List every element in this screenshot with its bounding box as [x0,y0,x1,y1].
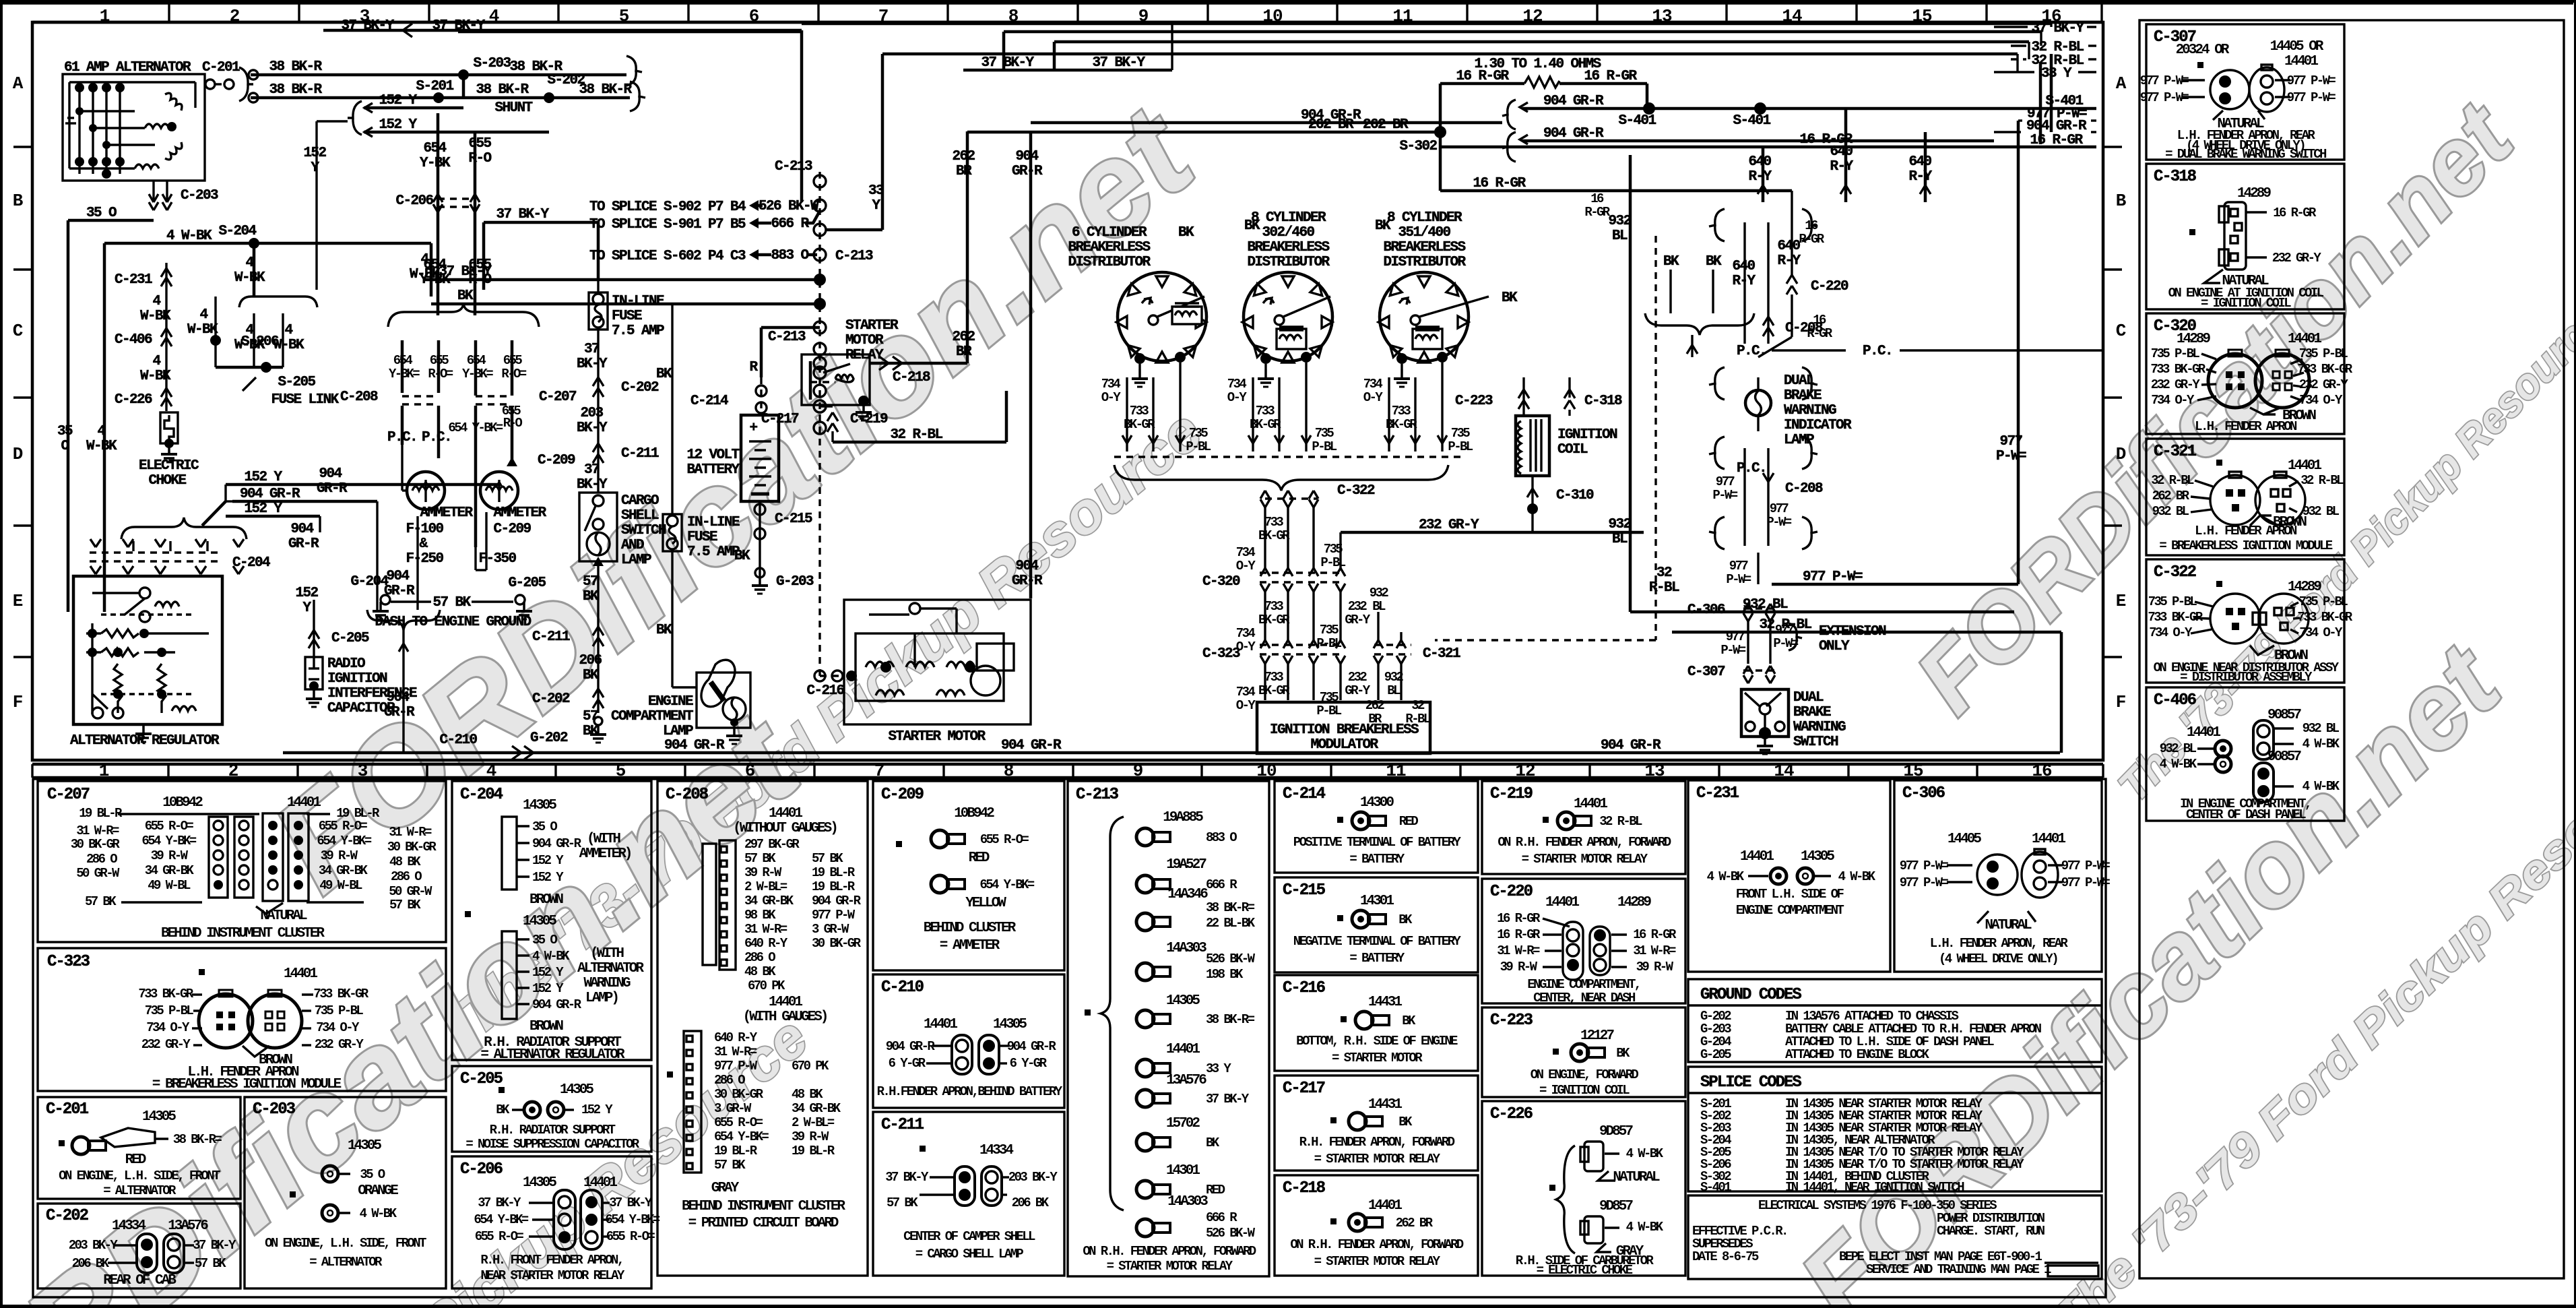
P.C. line [1737,344,2103,359]
svg-text:BK: BK [1663,254,1679,270]
svg-text:14401: 14401 [2288,458,2321,474]
svg-text:13A576: 13A576 [1166,1073,1206,1088]
brace collecting 38 BK-R pair [626,56,645,111]
wire 16 R-GR to C-220 [1440,176,1848,357]
svg-text:RED: RED [125,1152,146,1168]
svg-text:GR-R: GR-R [317,481,348,497]
svg-text:152 Y: 152 Y [532,870,564,885]
svg-text:666 R: 666 R [1206,1210,1237,1225]
svg-text:C-217: C-217 [761,412,799,427]
svg-text:57 BK: 57 BK [887,1195,918,1210]
svg-text:904: 904 [386,569,409,584]
svg-text:R-Y: R-Y [1777,253,1801,269]
alternator 61 AMP [63,60,205,181]
svg-text:G-202: G-202 [530,730,568,746]
svg-text:38 BK-R=: 38 BK-R= [1206,1012,1255,1027]
svg-text:37 BK-Y: 37 BK-Y [496,207,549,222]
svg-text:35 O: 35 O [532,819,557,834]
wire 932 BL vertical [1608,155,1631,612]
svg-text:NEGATIVE TERMINAL OF BATTERY: NEGATIVE TERMINAL OF BATTERY [1293,934,1462,949]
svg-text:AMMETER: AMMETER [493,505,546,521]
distributor 8 cyl 302/460 [1242,210,1332,387]
svg-text:733 BK-GR: 733 BK-GR [2150,362,2205,377]
svg-text:37 BK-Y: 37 BK-Y [981,55,1034,71]
svg-text:TO SPLICE S-902 P7 B4: TO SPLICE S-902 P7 B4 [589,199,746,215]
svg-text:C-202: C-202 [46,1207,88,1225]
svg-text:C-218: C-218 [1283,1179,1326,1197]
connector box C-214 [1275,781,1478,873]
svg-text:POSITIVE TERMINAL OF BATTERY: POSITIVE TERMINAL OF BATTERY [1293,835,1462,850]
svg-text:35 O: 35 O [86,206,117,221]
alternator regulator [70,576,222,749]
svg-text:IGNITION: IGNITION [327,671,387,687]
svg-text:GR-R: GR-R [1012,573,1043,589]
svg-text:904: 904 [290,522,313,537]
svg-text:REAR OF CAB: REAR OF CAB [103,1273,176,1288]
svg-text:BK-GR: BK-GR [1386,417,1417,432]
wire 526 BK-W [749,199,819,214]
watermark FORDification.net lower right [1778,566,2576,1308]
svg-text:WARNING: WARNING [1784,403,1836,418]
svg-text:14401: 14401 [769,806,802,821]
svg-text:C-318: C-318 [2154,168,2197,186]
svg-text:= NOISE SUPPRESSION CAPACITOR: = NOISE SUPPRESSION CAPACITOR [465,1137,639,1152]
svg-text:16 R-GR: 16 R-GR [1456,69,1509,84]
svg-text:932: 932 [1608,214,1631,229]
svg-text:152 Y: 152 Y [532,853,564,868]
svg-text:10B942: 10B942 [954,806,994,821]
svg-text:904 GR-R: 904 GR-R [886,1039,936,1054]
svg-text:R.H.FENDER APRON,BEHIND BATTER: R.H.FENDER APRON,BEHIND BATTERY [877,1084,1063,1099]
svg-text:262 BR: 262 BR [1363,117,1409,133]
wire 262 BR vertical [952,131,975,363]
svg-text:4 W-BK: 4 W-BK [2160,757,2197,772]
svg-text:733 BK-GR: 733 BK-GR [313,987,368,1001]
svg-text:BK: BK [1375,218,1391,234]
svg-text:B: B [2116,191,2127,211]
svg-text:977 P-W=: 977 P-W= [2061,875,2111,890]
wire R to battery [690,328,820,414]
svg-text:C-213: C-213 [835,249,873,264]
svg-text:BL: BL [1372,599,1386,614]
svg-text:14401: 14401 [1740,849,1774,865]
svg-text:32 R-BL: 32 R-BL [1599,814,1642,829]
svg-text:BEHIND CLUSTER: BEHIND CLUSTER [924,921,1017,936]
svg-text:7.5 AMP: 7.5 AMP [687,544,740,560]
svg-text:734: 734 [1363,377,1383,392]
svg-text:654 Y-BK=: 654 Y-BK= [317,834,371,848]
svg-text:733 BK-GR: 733 BK-GR [2297,610,2352,625]
svg-text:C-321: C-321 [2154,443,2197,461]
svg-text:BK: BK [583,668,599,683]
top ruler line [3,3,2573,22]
svg-text:654 Y-BK=: 654 Y-BK= [448,421,503,435]
svg-text:C-213: C-213 [775,159,812,175]
svg-text:38 BK-R: 38 BK-R [269,82,322,98]
svg-text:14401: 14401 [1166,1042,1200,1057]
svg-text:19 BL-R: 19 BL-R [812,865,856,880]
svg-text:203 BK-Y: 203 BK-Y [69,1238,119,1253]
svg-text:31 W-R=: 31 W-R= [1497,943,1540,958]
svg-text:206 BK: 206 BK [72,1256,110,1271]
svg-text:DISTRIBUTOR: DISTRIBUTOR [1068,255,1151,270]
svg-text:F: F [13,692,23,712]
svg-text:P.C.: P.C. [1737,344,1766,359]
svg-text:735 P-BL: 735 P-BL [2151,346,2200,361]
svg-text:640: 640 [1732,259,1755,274]
svg-text:14334: 14334 [979,1143,1013,1158]
svg-text:655: 655 [468,136,491,152]
svg-text:14305: 14305 [560,1082,593,1098]
watermark FORDification.net left [247,78,1345,1067]
svg-text:WARNING: WARNING [583,976,631,991]
wire 35 O [57,206,154,612]
svg-text:AMMETER: AMMETER [420,505,473,521]
svg-text:640: 640 [1908,154,1931,170]
wire C-218 relay output [870,356,967,385]
svg-text:(4 WHEEL DRIVE ONLY): (4 WHEEL DRIVE ONLY) [1939,952,2057,966]
svg-text:526 BK-W: 526 BK-W [1206,952,1256,966]
svg-text:O-Y: O-Y [1363,390,1384,405]
svg-text:904 GR-R: 904 GR-R [240,487,300,502]
svg-text:904 GR-R: 904 GR-R [1601,738,1661,753]
svg-text:C-215: C-215 [775,511,812,527]
svg-text:14289: 14289 [2177,332,2210,347]
svg-text:S-203: S-203 [473,56,511,71]
svg-text:WARNING: WARNING [1793,720,1846,735]
svg-text:P.C.: P.C. [1863,344,1892,359]
svg-text:232 GR-Y: 232 GR-Y [315,1037,364,1052]
svg-text:39 R-W: 39 R-W [151,848,189,863]
svg-text:733: 733 [1264,670,1284,685]
chain 57 BK below cargo to ground [530,561,606,746]
svg-text:A: A [2116,73,2127,94]
svg-text:C-213: C-213 [768,330,806,345]
svg-text:NATURAL: NATURAL [1613,1170,1660,1185]
svg-text:BROWN: BROWN [529,1019,563,1034]
svg-text:14305: 14305 [1166,993,1200,1009]
svg-text:14431: 14431 [1368,1097,1402,1113]
svg-text:= STARTER MOTOR RELAY: = STARTER MOTOR RELAY [1314,1152,1441,1166]
svg-text:883 O: 883 O [1206,830,1237,845]
svg-text:BK-GR: BK-GR [1258,683,1290,698]
svg-text:733 BK-GR: 733 BK-GR [138,987,193,1001]
svg-text:C-220: C-220 [1490,883,1533,901]
svg-text:14401: 14401 [2284,54,2318,69]
svg-text:= BATTERY: = BATTERY [1349,951,1405,966]
svg-text:22 BL-BK: 22 BL-BK [1206,916,1256,931]
svg-text:31 W-R=: 31 W-R= [1633,943,1676,958]
svg-text:BK: BK [656,367,672,382]
svg-text:38 BK-R=: 38 BK-R= [1206,900,1255,915]
svg-text:C-206: C-206 [460,1160,503,1179]
svg-text:RADIO: RADIO [327,656,365,672]
svg-text:= DUAL BRAKE WARNING SWITCH: = DUAL BRAKE WARNING SWITCH [2165,147,2327,162]
dual brake warning indicator lamp [1709,367,1852,448]
svg-text:655 R-O=: 655 R-O= [606,1229,655,1244]
svg-text:57 BK: 57 BK [432,595,471,611]
wire 666 R [749,211,820,232]
svg-text:654: 654 [393,353,413,368]
svg-text:P.C.: P.C. [1737,461,1766,476]
svg-text:C-210: C-210 [439,733,477,748]
svg-text:C-209: C-209 [538,453,575,468]
top bus line 33 Y [882,54,2096,121]
svg-text:30 BK-GR: 30 BK-GR [387,840,437,854]
electric choke [139,412,199,489]
svg-text:C-211: C-211 [532,629,570,645]
svg-text:= DISTRIBUTOR ASSEMBLY: = DISTRIBUTOR ASSEMBLY [2180,670,2313,685]
svg-text:BK-Y: BK-Y [577,421,608,436]
svg-text:14289: 14289 [2237,186,2271,201]
connector box C-306 [1894,780,2110,972]
connector C-203 arrows [149,181,218,210]
svg-text:C: C [13,321,23,341]
svg-text:G-204: G-204 [350,574,388,590]
svg-text:BK-GR: BK-GR [1258,613,1290,627]
svg-text:C-226: C-226 [1490,1105,1533,1123]
svg-text:C-231: C-231 [115,272,152,288]
svg-text:654 Y-BK=: 654 Y-BK= [714,1129,769,1144]
svg-text:37 BK-Y: 37 BK-Y [1092,55,1145,71]
svg-text:39 R-W: 39 R-W [744,865,782,880]
svg-text:4: 4 [199,307,207,323]
svg-text:35 O: 35 O [360,1167,385,1182]
svg-text:39 R-W: 39 R-W [1500,960,1538,974]
svg-text:34 GR-BK: 34 GR-BK [744,894,794,908]
svg-text:SWITCH: SWITCH [621,523,666,538]
svg-text:4 W-BK: 4 W-BK [1626,1220,1664,1235]
connector box C-406 [2146,687,2344,822]
svg-text:C: C [2116,321,2126,341]
wire 904 GR-R lower row [1502,106,2096,162]
svg-text:38 BK-R=: 38 BK-R= [173,1132,222,1147]
svg-text:O-Y: O-Y [1236,698,1256,713]
svg-text:655 R-O=: 655 R-O= [319,819,368,834]
svg-text:34 GR-BK: 34 GR-BK [145,863,195,878]
svg-text:8 CYLINDER: 8 CYLINDER [1387,210,1462,226]
connector box C-213 [1068,781,1269,1276]
svg-text:4 W-BK: 4 W-BK [1838,869,1876,884]
svg-text:C-406: C-406 [2154,691,2197,710]
svg-text:C-207: C-207 [47,786,90,804]
svg-text:654 Y-BK=: 654 Y-BK= [474,1212,528,1227]
splice S-201 [416,79,453,103]
svg-text:37 BK-Y: 37 BK-Y [193,1238,236,1253]
svg-text:37 BK-Y: 37 BK-Y [341,18,394,34]
svg-text:14401: 14401 [1574,797,1607,812]
svg-text:526 BK-W: 526 BK-W [1206,1226,1256,1241]
svg-text:DATE 8-6-75: DATE 8-6-75 [1692,1249,1759,1264]
svg-text:262: 262 [952,149,975,164]
svg-text:GR-R: GR-R [384,705,415,720]
wire 977 P-W horizontal [1772,121,2026,585]
wire chain C-231 C-406 C-226 [115,263,172,411]
svg-text:670 PK: 670 PK [748,978,785,993]
svg-text:932 BL: 932 BL [2303,721,2340,736]
svg-text:977: 977 [1729,559,1749,573]
svg-text:38 BK-R: 38 BK-R [579,82,632,98]
top ruler ticks [169,3,2102,22]
connector C-306 dashes [1687,602,1886,664]
in-line fuse 7.5A lower [656,514,740,687]
svg-text:50 GR-W: 50 GR-W [76,866,120,881]
resistor 1.30 TO 1.40 OHMS [1440,57,1647,191]
wire 16 R-GR long row [1440,132,2096,148]
svg-text:GR-R: GR-R [288,536,319,552]
ammeter F-350 [476,472,547,570]
svg-text:C-208: C-208 [340,390,378,405]
connector C-208 dashes [340,390,439,405]
svg-text:640 R-Y: 640 R-Y [714,1030,758,1045]
svg-text:19 BL-R: 19 BL-R [714,1144,758,1158]
top bus line 2 [458,32,2096,70]
svg-text:8 CYLINDER: 8 CYLINDER [1251,210,1326,226]
svg-text:262: 262 [952,330,975,345]
svg-text:37: 37 [584,342,600,357]
right edge vertical link [2040,54,2051,144]
svg-text:152 Y: 152 Y [581,1102,613,1117]
svg-text:(WITH: (WITH [587,832,620,847]
svg-text:C-406: C-406 [115,332,152,348]
svg-text:RED: RED [969,850,990,866]
connector box C-205 [452,1066,651,1152]
connector box C-318 [2146,164,2344,311]
wire 152 Y pair [303,93,549,290]
svg-text:977 P-W=: 977 P-W= [1900,875,1949,890]
svg-text:C-310: C-310 [1556,488,1594,503]
connector C-201 [202,60,253,101]
svg-text:F-100: F-100 [406,522,443,537]
svg-text:9D857: 9D857 [1599,1124,1633,1140]
wire S-206 chain [187,297,279,367]
svg-text:C-218: C-218 [893,370,930,385]
svg-text:57 BK: 57 BK [812,851,843,866]
svg-text:MOTOR: MOTOR [845,333,884,348]
svg-text:932 BL: 932 BL [2152,504,2189,519]
ground codes table [1688,979,2102,1062]
bottom section outer border [33,779,2106,1297]
wire 883 O [749,248,817,263]
svg-text:152 Y: 152 Y [532,981,564,996]
wire 640 R-Y second drop [1908,132,1932,202]
svg-text:734: 734 [1227,377,1247,392]
svg-text:57 BK: 57 BK [389,898,421,912]
svg-text:654 Y-BK=: 654 Y-BK= [979,877,1034,892]
svg-text:BL: BL [1612,532,1628,547]
connector box C-323 [38,948,446,1092]
svg-text:C-215: C-215 [1283,881,1326,900]
svg-text:RED: RED [1206,1183,1225,1197]
svg-text:GRAY: GRAY [711,1181,740,1196]
svg-text:C-219: C-219 [850,412,888,427]
svg-text:BK: BK [734,549,750,564]
svg-text:GR-Y: GR-Y [1345,683,1370,698]
bottom bus 904 GR-R [283,733,2060,759]
distributor drop wires D1 [1101,363,1211,454]
svg-text:16 R-GR: 16 R-GR [1497,911,1541,926]
svg-text:= BATTERY: = BATTERY [1349,852,1405,867]
svg-text:S-401: S-401 [1733,113,1770,129]
svg-text:P-W=: P-W= [1720,643,1745,658]
svg-text:C-202: C-202 [621,380,659,396]
svg-text:14305: 14305 [1801,849,1834,865]
wire 37 BK-Y top [323,18,802,202]
svg-text:STARTER: STARTER [845,318,899,334]
svg-text:W-BK: W-BK [86,439,117,454]
svg-text:655: 655 [503,353,523,368]
svg-text:= STARTER MOTOR RELAY: = STARTER MOTOR RELAY [1314,1254,1441,1269]
svg-text:BK: BK [1706,254,1722,270]
svg-text:48 BK: 48 BK [744,964,776,979]
svg-text:932: 932 [1608,517,1631,532]
svg-text:16 R-GR: 16 R-GR [1497,927,1541,942]
svg-text:D: D [2116,444,2126,464]
svg-text:14401: 14401 [1368,1198,1402,1214]
svg-text:13A576: 13A576 [168,1218,208,1234]
svg-text:R-Y: R-Y [1830,159,1853,175]
svg-text:P-BL: P-BL [1186,439,1211,454]
brace group 654/655 [388,304,539,396]
svg-text:4: 4 [284,323,292,338]
svg-text:IN-LINE: IN-LINE [687,515,740,530]
connector C-321 row [1365,586,1460,726]
gather dashed row under distributors [1114,457,1460,491]
svg-text:32 R-BL: 32 R-BL [2151,473,2194,488]
svg-text:BK-GR: BK-GR [1250,417,1281,432]
connector box C-202 [38,1204,240,1288]
svg-text:P-W=: P-W= [1773,636,1798,651]
svg-text:904: 904 [1015,149,1038,164]
svg-text:BOTTOM, R.H. SIDE OF ENGINE: BOTTOM, R.H. SIDE OF ENGINE [1296,1034,1458,1049]
svg-text:ON R.H. FENDER APRON, FORWARD: ON R.H. FENDER APRON, FORWARD [1498,835,1671,850]
svg-text:19 BL-R: 19 BL-R [79,806,123,821]
svg-text:14401: 14401 [769,995,802,1010]
svg-text:AMMETER): AMMETER) [579,846,631,862]
splice S-203 [458,56,511,98]
svg-text:BK: BK [1244,218,1260,234]
connector box C-218 [1275,1175,1478,1276]
ammeter F-100 [402,445,474,567]
svg-text:640: 640 [1777,239,1800,254]
svg-text:152: 152 [303,146,326,161]
svg-text:SHELL: SHELL [621,508,659,524]
connector box C-208 [657,781,868,1276]
wires 152Y 904GR-R 152Y into regulator [202,466,498,552]
connector box C-207 [38,781,446,942]
svg-text:BK: BK [583,589,599,604]
connector box C-215 [1275,877,1478,972]
splice S-202 [544,73,585,103]
connector C-204 dashes [90,539,270,574]
svg-text:640: 640 [1748,154,1771,170]
svg-text:C-217: C-217 [1283,1080,1325,1098]
svg-text:232 GR-Y: 232 GR-Y [1419,518,1479,533]
coil bottom wire C-310 [1527,476,1594,532]
svg-text:= BREAKERLESS IGNITION MODULE: = BREAKERLESS IGNITION MODULE [2159,538,2332,553]
wire 38 BK-R lower [249,82,633,116]
svg-text:57: 57 [583,574,598,590]
connector C-207 dashes [476,390,577,405]
svg-text:C-213: C-213 [1076,786,1119,804]
svg-text:R.H. FRONT FENDER APRON,: R.H. FRONT FENDER APRON, [480,1253,622,1268]
svg-text:733: 733 [1264,515,1284,530]
svg-text:C-201: C-201 [46,1100,89,1119]
svg-text:37 BK-Y: 37 BK-Y [478,1195,521,1210]
wires C-320 to C-323 [1236,592,1371,654]
distributor 8 cyl 351/400 [1375,210,1518,387]
svg-text:152 Y: 152 Y [244,470,282,485]
